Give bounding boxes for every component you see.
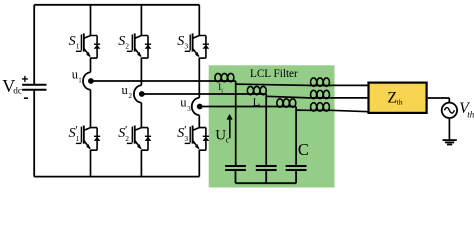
inductor Li phase3 (277, 99, 296, 107)
top bus (34, 4, 199, 6)
svg-text:S: S (177, 34, 184, 49)
transistor S3' (185, 126, 210, 151)
svg-text:2: 2 (125, 42, 129, 51)
transistor S3 (185, 33, 210, 58)
capacitor branch 2 (265, 94, 267, 166)
LCL filter green box (209, 65, 335, 187)
capacitor branch 1 (235, 81, 237, 166)
wire source to ground (448, 118, 450, 139)
svg-text:th: th (467, 109, 474, 119)
wire phase 3 (199, 106, 296, 108)
capacitor C2 (256, 166, 277, 170)
svg-text:2: 2 (129, 92, 133, 100)
Zth block (369, 83, 427, 113)
inductor Li phase2 (247, 86, 266, 94)
wire phase 2 mid (266, 96, 309, 98)
transistor S1 (76, 33, 101, 58)
svg-text:th: th (397, 98, 403, 107)
Uc arrow (229, 119, 231, 139)
inductor Lg phase1 (309, 85, 331, 87)
inductor Lg phase3 (309, 109, 331, 111)
leg 2 wire (140, 5, 142, 177)
wire phase 1 out (331, 84, 369, 86)
wire phase 1 (91, 80, 236, 82)
svg-text:1: 1 (78, 77, 82, 85)
svg-text:3: 3 (184, 134, 188, 143)
svg-text:c: c (226, 135, 230, 144)
svg-text:u: u (122, 83, 129, 97)
wire phase 3 mid (296, 109, 309, 111)
plus sign (22, 76, 28, 82)
ground (443, 140, 457, 144)
wire phase 2 out (331, 97, 369, 99)
transistor S2' (127, 126, 152, 151)
node u3 (192, 98, 203, 115)
transistor S2 (127, 33, 152, 58)
capacitor bottom leads and rail (236, 170, 297, 183)
leg 3 wire (198, 5, 200, 177)
capacitor C3 (286, 166, 307, 170)
capacitor C1 (225, 166, 246, 170)
left rail (33, 5, 35, 177)
capacitor branch 3 (295, 106, 297, 166)
leg 1 wire (90, 5, 92, 177)
ac source Vth (442, 103, 457, 118)
svg-text:Z: Z (387, 89, 397, 106)
node u2 (134, 85, 145, 102)
svg-text:S: S (118, 34, 125, 49)
svg-text:LCL Filter: LCL Filter (250, 68, 298, 80)
wire phase 3 out (331, 110, 369, 111)
svg-text:2: 2 (125, 134, 129, 143)
svg-text:1: 1 (76, 42, 80, 51)
svg-text:u: u (180, 95, 187, 109)
svg-text:dc: dc (13, 87, 22, 97)
wire Zth to source (428, 98, 450, 103)
svg-text:1: 1 (76, 134, 80, 143)
svg-text:U: U (215, 127, 226, 143)
wire phase 1 mid (236, 84, 309, 85)
svg-text:C: C (298, 140, 309, 159)
inductor Li phase1 (215, 73, 234, 81)
wire phase 2 (141, 93, 266, 95)
node u1 (83, 72, 94, 89)
svg-text:3: 3 (184, 42, 188, 51)
svg-text:3: 3 (187, 105, 191, 113)
bottom bus (34, 176, 199, 178)
minus sign (24, 97, 28, 99)
capacitor Vdc plates (22, 85, 46, 90)
inductor Lg phase2 (309, 97, 331, 99)
svg-text:S: S (69, 34, 76, 49)
transistor S1' (76, 126, 101, 151)
